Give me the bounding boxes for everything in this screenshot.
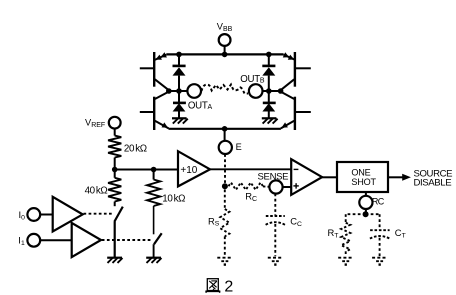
wire VBB to top rail <box>224 46 226 54</box>
svg-text:20kΩ: 20kΩ <box>124 144 147 155</box>
wire 10k to switch <box>153 206 155 234</box>
wire OUTA <box>169 90 188 92</box>
transistor Q1 upper-left PNP <box>140 52 169 90</box>
terminal RC <box>359 196 384 209</box>
svg-text:RC: RC <box>372 197 385 207</box>
wire VREF to R 20k <box>114 129 116 136</box>
terminal OUTA <box>187 84 212 111</box>
ground chassis 10k <box>146 258 161 263</box>
terminal SENSE <box>258 171 289 193</box>
diode D1 upper-left <box>173 54 186 91</box>
resistor RS (dashed) <box>208 190 229 257</box>
resistor RT (dashed) <box>328 223 351 256</box>
wire top rail <box>166 53 283 55</box>
wire one-shot output arrow <box>388 174 411 181</box>
svg-text:E: E <box>236 142 242 152</box>
ground chassis left <box>172 118 188 123</box>
node divider right <box>151 167 157 173</box>
wire one-shot to RC terminal <box>365 192 367 196</box>
label SOURCE DISABLE <box>414 169 453 189</box>
wire I0 to buffer <box>40 214 53 216</box>
ground chassis 40k <box>107 258 122 263</box>
wire RC to node <box>365 209 367 214</box>
node divider left <box>112 167 118 173</box>
svg-text:40kΩ: 40kΩ <box>85 186 108 197</box>
svg-text:2: 2 <box>224 278 233 295</box>
capacitor CC (dashed) <box>266 194 302 257</box>
diode D4 lower-right <box>262 91 275 118</box>
terminal OUTB <box>240 74 265 98</box>
node top-right diode junction <box>266 52 272 58</box>
node RC junction <box>363 211 369 217</box>
one-shot U2 <box>337 162 388 192</box>
wire divider to amp input <box>115 169 178 171</box>
switch SW2 (10k to ground) <box>154 233 162 244</box>
node OUTA diode column <box>176 88 182 94</box>
wire SENSE to comparator <box>283 186 292 188</box>
diode D3 upper-right <box>262 54 275 91</box>
wire 40k switch to ground <box>114 222 116 258</box>
wire E sense (dashed) <box>224 154 226 186</box>
svg-text:+10: +10 <box>180 165 197 176</box>
op-amp A3 gain +10 <box>178 151 210 186</box>
terminal VREF <box>85 117 121 129</box>
resistor RC (dashed) <box>225 183 270 203</box>
wire I1 to buffer <box>40 239 71 241</box>
node OUTB diode column <box>266 88 272 94</box>
terminal I0 <box>19 208 41 221</box>
resistor 40k <box>85 170 122 202</box>
resistor 20k <box>108 136 147 158</box>
wire bottom rail to E <box>224 129 226 141</box>
node OUTA junction left <box>166 88 172 94</box>
svg-text:SHOT: SHOT <box>351 177 376 187</box>
wire RC to RT (dashed) <box>346 214 366 223</box>
wire I0 control (dashed) <box>84 213 113 215</box>
ground chassis right <box>262 118 278 123</box>
node Rs/Rc junction <box>222 183 228 189</box>
node top-left diode junction <box>176 52 182 58</box>
terminal I1 <box>18 234 40 247</box>
svg-text:DISABLE: DISABLE <box>414 178 452 189</box>
node bottom rail center <box>222 126 228 132</box>
load winding between OUTA and OUTB (dashed) <box>202 85 249 94</box>
capacitor CT (dashed) <box>370 227 406 256</box>
switch SW1 (40k to ground) <box>114 202 122 222</box>
terminal E <box>219 141 242 154</box>
node OUTB junction right <box>278 88 284 94</box>
transistor Q3 upper-right PNP <box>281 52 311 90</box>
wire I1 control (dashed) <box>102 239 153 241</box>
diode D2 lower-left <box>173 91 186 118</box>
ground signal RT (dashed) <box>338 258 353 265</box>
transistor Q4 lower-right NPN <box>281 92 311 130</box>
terminal VBB <box>217 22 233 46</box>
ground signal CT (dashed) <box>372 258 387 265</box>
wire OUTB <box>263 90 281 92</box>
wire 10k switch to ground <box>153 244 155 257</box>
comparator U1 <box>291 159 322 195</box>
buffer A2 (I1) <box>72 223 101 257</box>
wire amp output to comparator <box>210 168 291 170</box>
svg-text:10kΩ: 10kΩ <box>162 193 185 204</box>
transistor Q2 lower-left NPN <box>140 92 169 130</box>
buffer A1 (I0) <box>53 197 83 232</box>
ground signal RS (dashed) <box>217 258 232 265</box>
svg-text:ONE: ONE <box>351 167 370 177</box>
wire bottom rail <box>169 128 281 130</box>
node VBB on top rail <box>222 52 228 58</box>
wire comparator to one-shot <box>322 176 337 178</box>
ground signal CC (dashed) <box>268 258 283 265</box>
resistor 10k <box>147 170 185 207</box>
caption figure 2 glyph <box>205 279 220 293</box>
wire 20k to divider node <box>114 158 116 170</box>
wire RC to CT (dashed) <box>366 214 380 230</box>
